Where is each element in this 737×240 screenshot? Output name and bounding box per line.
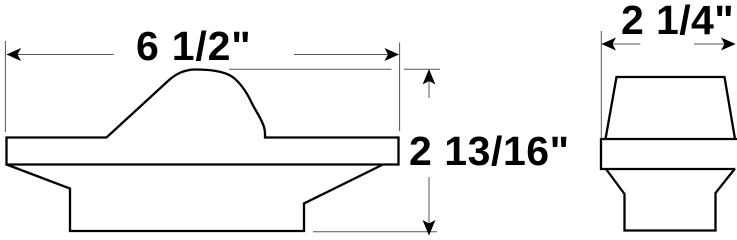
dim 2 13/16: top extension line (from hump top) (229, 68, 440, 70)
left view: plate with dome hump outline (7, 70, 399, 165)
dim 2 13/16: bottom extension line (from base bottom) (313, 231, 437, 233)
svg-text:2 13/16": 2 13/16" (409, 128, 570, 174)
dim 2 1/4: left extension line (600, 31, 602, 139)
dim 6 1/2: dimension line right segment (294, 54, 399, 56)
svg-text:6 1/2": 6 1/2" (136, 23, 251, 69)
right view: lower tapered base outline (606, 169, 735, 231)
dim 2 1/4: left arrowhead (602, 38, 617, 51)
dim 2 13/16: down arrowhead (423, 220, 436, 236)
dim 2 1/4: right arrowhead (721, 38, 736, 51)
dim 6 1/2: left extension line (4, 41, 6, 132)
left view: trapezoid base outline (7, 165, 384, 232)
dim 6 1/2: label text (136, 23, 251, 69)
right view: middle band rectangle (601, 139, 737, 169)
dim 2 1/4: dimension line right segment (694, 43, 735, 45)
dim 2 13/16: up arrowhead (423, 69, 436, 85)
dim 2 1/4: dimension line left segment (602, 43, 641, 45)
dim 2 13/16: label text (409, 128, 570, 174)
dim 6 1/2: right extension line (399, 43, 401, 132)
dim 6 1/2: dimension line left segment (7, 54, 114, 56)
dim 6 1/2: right arrowhead (385, 48, 400, 61)
dim 2 13/16: vertical dimension line (428, 70, 430, 235)
dim 2 1/4: label text (621, 0, 734, 43)
dim 6 1/2: left arrowhead (7, 48, 22, 61)
svg-text:2 1/4": 2 1/4" (621, 0, 734, 43)
right view: top trapezoid outline (606, 77, 736, 139)
